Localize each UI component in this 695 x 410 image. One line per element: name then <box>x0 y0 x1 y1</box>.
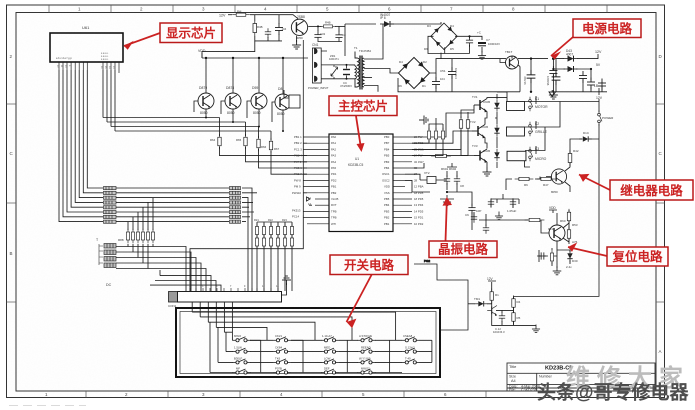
svg-text:头条@哥专修电器: 头条@哥专修电器 <box>537 381 690 404</box>
